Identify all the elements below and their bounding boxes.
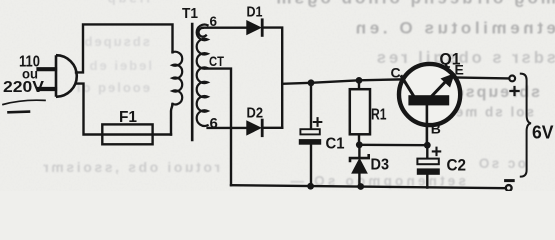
svg-text:6: 6 (210, 14, 218, 29)
svg-text:ledei eb: ledei eb (88, 58, 152, 73)
svg-text:D2: D2 (247, 106, 264, 122)
svg-text:C1: C1 (326, 136, 345, 153)
svg-text:220V: 220V (3, 79, 44, 96)
svg-text:C: C (391, 65, 401, 81)
svg-text:D1: D1 (247, 5, 263, 21)
svg-text:T1: T1 (182, 5, 198, 22)
svg-text:6V: 6V (532, 123, 554, 143)
svg-text:R1: R1 (371, 107, 387, 124)
svg-text:rotuoi obs ,ssoismr: rotuoi obs ,ssoismr (41, 159, 220, 175)
svg-text:C2: C2 (447, 157, 467, 175)
svg-text:6: 6 (210, 115, 218, 132)
svg-text:oc sO: oc sO (476, 156, 526, 171)
svg-text:D3: D3 (371, 157, 390, 174)
svg-text:mog oirueenq oinob ogsm: mog oirueenq oinob ogsm (274, 0, 555, 8)
svg-text:ilsup: ilsup (105, 0, 150, 6)
svg-text:sdsr s obsgil res: sdsr s obsgil res (374, 49, 555, 67)
svg-text:F1: F1 (119, 109, 137, 126)
svg-text:E: E (455, 62, 464, 78)
svg-text:B: B (431, 121, 441, 137)
svg-text:CT: CT (209, 53, 224, 69)
svg-text:sbsupeb: sbsupeb (83, 34, 150, 49)
svg-text:eooleq ol: eooleq ol (75, 80, 150, 95)
svg-text:etnemilotus O .en: etnemilotus O .en (352, 19, 555, 38)
